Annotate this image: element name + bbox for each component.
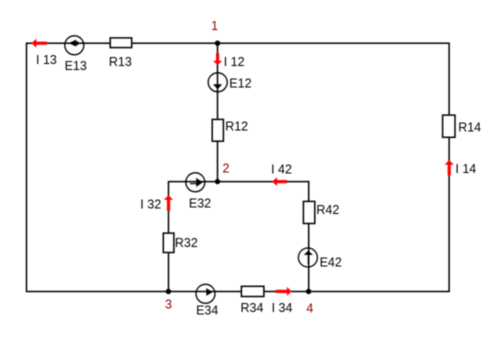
svg-text:R13: R13 bbox=[109, 55, 132, 69]
svg-text:4: 4 bbox=[306, 302, 313, 316]
svg-text:E34: E34 bbox=[196, 304, 218, 318]
svg-text:I 32: I 32 bbox=[140, 197, 161, 211]
svg-text:1: 1 bbox=[211, 19, 218, 33]
svg-text:E32: E32 bbox=[189, 197, 211, 211]
svg-text:I 42: I 42 bbox=[271, 163, 292, 177]
svg-text:I 34: I 34 bbox=[272, 301, 293, 315]
svg-text:R34: R34 bbox=[241, 301, 264, 315]
svg-text:I 12: I 12 bbox=[224, 55, 245, 69]
svg-text:I 14: I 14 bbox=[455, 162, 476, 176]
svg-text:R12: R12 bbox=[225, 119, 248, 133]
svg-text:3: 3 bbox=[165, 298, 172, 312]
svg-text:E12: E12 bbox=[229, 77, 251, 91]
svg-text:R42: R42 bbox=[316, 203, 339, 217]
svg-text:E13: E13 bbox=[65, 59, 87, 73]
svg-text:E42: E42 bbox=[320, 255, 342, 269]
svg-text:I 13: I 13 bbox=[36, 53, 57, 67]
svg-text:R14: R14 bbox=[458, 121, 481, 135]
svg-text:2: 2 bbox=[223, 162, 230, 176]
svg-text:R32: R32 bbox=[175, 236, 198, 250]
